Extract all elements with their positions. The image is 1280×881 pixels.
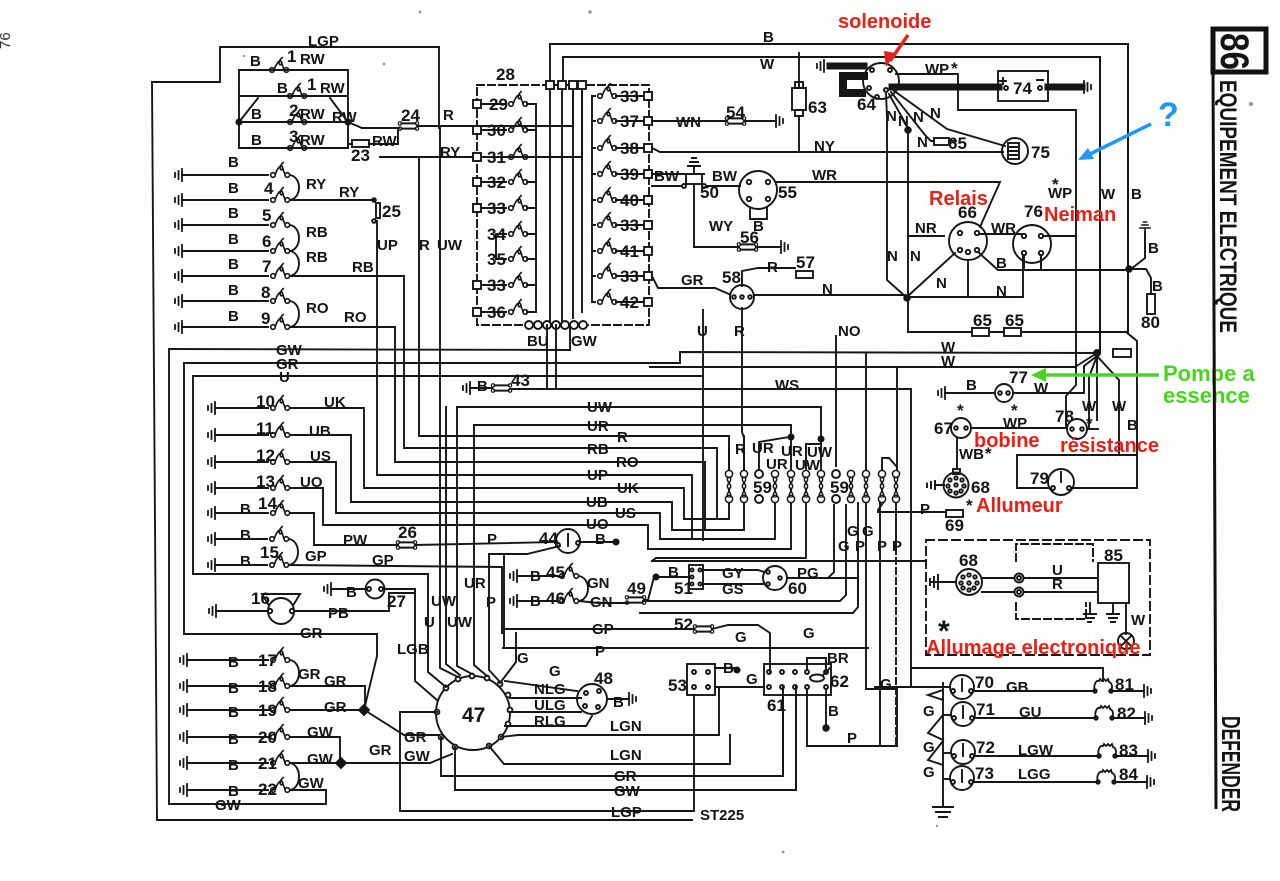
svg-text:1: 1: [307, 75, 316, 94]
svg-text:61: 61: [767, 696, 786, 715]
svg-text:B: B: [530, 593, 541, 610]
wire UW pair vertical: [446, 407, 460, 675]
svg-text:GW: GW: [307, 751, 334, 768]
wire B top: [550, 44, 1128, 332]
svg-text:29: 29: [489, 95, 508, 114]
svg-text:UP: UP: [377, 237, 398, 254]
svg-text:RY: RY: [306, 176, 326, 193]
svg-text:77: 77: [1009, 368, 1028, 387]
switch 3: [288, 136, 307, 151]
switch 4a: [271, 163, 290, 178]
wire N fan 3: [891, 92, 934, 141]
ground 77: [938, 387, 945, 399]
svg-text:NO: NO: [838, 323, 861, 340]
svg-text:B: B: [763, 29, 774, 46]
svg-text:G: G: [549, 663, 561, 680]
solenoid 64: [863, 63, 899, 99]
svg-text:LGN: LGN: [610, 718, 642, 735]
svg-text:RW: RW: [300, 51, 326, 68]
svg-text:RW: RW: [372, 133, 398, 150]
svg-text:47: 47: [462, 704, 485, 727]
svg-text:UR: UR: [464, 575, 486, 592]
svg-text:B: B: [595, 531, 606, 548]
svg-text:72: 72: [976, 738, 995, 757]
wire GS 51-60: [703, 583, 763, 585]
svg-text:B: B: [1148, 240, 1159, 257]
ground 84: [1147, 776, 1154, 788]
node UW feed: [818, 436, 823, 441]
distributor 68: [944, 469, 969, 498]
switch 33a: [473, 196, 536, 212]
svg-text:UK: UK: [324, 394, 346, 411]
bus vertical R in 28: [572, 86, 574, 318]
svg-text:GR: GR: [369, 742, 392, 759]
wire P 44 down: [489, 546, 560, 682]
svg-text:9: 9: [261, 309, 270, 328]
svg-text:12: 12: [256, 446, 275, 465]
svg-text:RB: RB: [306, 249, 328, 266]
svg-text:22: 22: [258, 780, 277, 799]
svg-text:N: N: [936, 275, 947, 292]
wire RY from 4: [290, 199, 374, 201]
svg-text:UR: UR: [752, 440, 774, 457]
connector 25: [376, 203, 380, 218]
wire LGP bottom: [400, 712, 693, 811]
ground 15a: [208, 533, 215, 545]
node W fan junction: [1094, 350, 1100, 356]
battery 74: [998, 71, 1048, 101]
ground 56: [781, 241, 788, 253]
ground 20: [180, 731, 187, 743]
svg-text:GW: GW: [404, 748, 431, 765]
wire W vertical right: [1099, 57, 1101, 352]
wire N fan 2: [889, 94, 908, 128]
wire LGN2 from 47: [489, 735, 730, 764]
svg-text:B: B: [723, 660, 734, 677]
wire B 21: [187, 762, 268, 764]
svg-text:GP: GP: [592, 621, 614, 638]
switch 4b: [271, 188, 290, 203]
wire B 45: [517, 575, 557, 577]
wire bracket RB 6-7: [290, 251, 299, 276]
bus vertical W in 28: [561, 86, 563, 325]
battery cable to 74: [892, 84, 999, 91]
svg-text:53: 53: [668, 676, 687, 695]
wire GN from 46: [579, 601, 627, 603]
wire 56 ground: [756, 246, 781, 248]
wire RO from 9: [290, 327, 395, 462]
svg-text:P: P: [892, 538, 902, 555]
ground 27: [324, 583, 331, 595]
svg-text:G: G: [746, 671, 758, 688]
wire B from 44: [580, 541, 614, 543]
wire G feed lamps vertical: [875, 668, 950, 687]
svg-text:GB: GB: [1006, 679, 1029, 696]
svg-text:W: W: [1131, 612, 1146, 629]
wire N from 66 bottom: [967, 261, 969, 297]
svg-text:71: 71: [976, 700, 995, 719]
svg-text:70: 70: [975, 673, 994, 692]
wire UP end: [377, 475, 692, 539]
scan speckles: [419, 11, 422, 14]
ground 18: [180, 680, 187, 692]
svg-text:83: 83: [1119, 741, 1138, 760]
svg-text:36: 36: [487, 303, 506, 322]
connector 59 plain column: [755, 470, 763, 503]
svg-text:14: 14: [258, 494, 277, 513]
svg-text:N: N: [898, 113, 909, 130]
wire bracket GR 17-18: [290, 660, 299, 686]
wire B 46: [517, 600, 557, 602]
svg-text:N: N: [910, 248, 921, 265]
wire NLG 47-48: [510, 697, 581, 699]
wire GR to 47: [366, 711, 440, 735]
svg-text:solenoide: solenoide: [838, 11, 931, 33]
svg-text:LGW: LGW: [1018, 742, 1054, 759]
wire 76 right: [1043, 235, 1076, 237]
svg-text:RO: RO: [306, 300, 329, 317]
svg-text:UW: UW: [437, 237, 463, 254]
svg-text:B: B: [228, 654, 239, 671]
inner dashed box top: [1016, 544, 1093, 561]
svg-text:33: 33: [487, 199, 506, 218]
svg-text:21: 21: [258, 754, 277, 773]
svg-text:GN: GN: [590, 594, 613, 611]
wire UR1: [474, 425, 791, 437]
wire NR to 66: [908, 235, 944, 237]
switch 37: [592, 109, 652, 125]
node N join: [905, 127, 911, 133]
wire B 4b: [182, 199, 268, 201]
svg-text:U: U: [279, 369, 290, 386]
wire GR drop from 61: [782, 687, 784, 776]
wire P1 from 59: [880, 503, 896, 746]
svg-text:4: 4: [264, 179, 274, 198]
ground 14: [208, 507, 215, 519]
svg-text:G: G: [880, 676, 892, 693]
wire B vertical right: [1127, 44, 1129, 332]
svg-text:58: 58: [722, 268, 741, 287]
wire 83 ground: [1116, 755, 1148, 757]
wire B 10: [215, 407, 268, 409]
svg-text:BR: BR: [827, 650, 849, 667]
wire U 68b to 85: [982, 577, 1098, 579]
wire GW from 21: [290, 762, 339, 764]
ground 83: [1148, 750, 1155, 762]
svg-text:W: W: [760, 56, 775, 73]
wire U long: [193, 375, 703, 377]
svg-text:GR: GR: [298, 666, 321, 683]
svg-text:WY: WY: [709, 218, 733, 235]
resistor 80: [1147, 294, 1155, 314]
svg-text:64: 64: [857, 95, 876, 114]
ignition lock 75: [1002, 138, 1028, 164]
wire NY from 38: [652, 148, 1003, 152]
wire U wrap left: [193, 376, 428, 574]
inner dashed box bottom: [1016, 603, 1086, 619]
svg-text:67: 67: [934, 419, 953, 438]
battery cable thick L: [843, 76, 868, 93]
svg-text:R: R: [1052, 576, 1063, 593]
wire WR from 55: [776, 182, 1000, 227]
svg-text:52: 52: [674, 615, 693, 634]
svg-text:U: U: [424, 614, 435, 631]
svg-text:17: 17: [258, 651, 277, 670]
coil 67 bobine: [951, 418, 971, 438]
wire WY from 50: [694, 186, 739, 247]
svg-text:B: B: [251, 106, 262, 123]
switch 38: [592, 136, 652, 152]
wire B 14: [215, 512, 268, 514]
wire 23 stub: [348, 128, 398, 144]
wire B 7: [182, 275, 268, 277]
svg-text:74: 74: [1013, 79, 1032, 98]
switch 8: [271, 289, 290, 304]
switch 5: [271, 213, 290, 228]
switch 27: [366, 580, 385, 599]
svg-text:bobine: bobine: [974, 430, 1040, 452]
svg-text:3: 3: [289, 127, 298, 146]
svg-text:*: *: [951, 59, 958, 78]
ground 15b: [208, 559, 215, 571]
wire UW into 47: [440, 128, 458, 677]
wire LGP right drop: [438, 47, 440, 128]
wire bracket GN 45-46: [579, 576, 588, 601]
svg-text:37: 37: [620, 112, 639, 131]
wire RLG 47-48: [505, 716, 592, 726]
svg-text:32: 32: [487, 173, 506, 192]
svg-text:86: 86: [1212, 33, 1256, 70]
svg-text:Allumage electronique: Allumage electronique: [926, 637, 1141, 659]
svg-text:51: 51: [674, 579, 693, 598]
svg-text:B: B: [240, 501, 251, 518]
ground 8: [175, 295, 182, 307]
switch 33b: [473, 273, 536, 289]
switch 33e: [592, 264, 652, 280]
lamp 72: [951, 740, 975, 764]
wire B 77: [945, 392, 995, 394]
wire G mid line: [640, 503, 858, 613]
switch 7: [271, 264, 290, 279]
node B 53: [734, 667, 739, 672]
dip switch 55: [739, 171, 777, 219]
wire B from 76: [1040, 255, 1042, 270]
wire 48 ground: [607, 698, 629, 700]
wire 67 down to 68: [956, 438, 958, 467]
svg-text:WP: WP: [1048, 185, 1072, 202]
svg-text:62: 62: [830, 672, 849, 691]
ground 85a: [1084, 603, 1096, 622]
svg-text:B: B: [477, 378, 488, 395]
wire B 15b: [215, 564, 267, 566]
wire US: [290, 462, 660, 539]
svg-text:GN: GN: [587, 575, 610, 592]
svg-text:ULG: ULG: [534, 697, 566, 714]
svg-text:73: 73: [975, 764, 994, 783]
wire UR into 47: [457, 407, 472, 674]
wire bracket RO 8-9: [290, 301, 299, 327]
connector 65a: [934, 138, 949, 145]
relay 66: [949, 222, 987, 260]
connector fan right: [1113, 349, 1131, 357]
wire GP from 15: [289, 565, 502, 633]
ground 9: [175, 321, 182, 333]
wire bracket GW 21-22: [290, 763, 299, 790]
svg-text:76: 76: [1024, 202, 1043, 221]
wire BW 50 to 55: [652, 185, 740, 187]
switch 18: [271, 674, 290, 689]
svg-text:ST225: ST225: [700, 807, 744, 824]
svg-text:LGG: LGG: [1018, 766, 1051, 783]
wire R 68b to 85: [982, 591, 1098, 593]
svg-text:B: B: [530, 568, 541, 585]
wire y561 line: [652, 560, 926, 562]
svg-text:35: 35: [487, 250, 506, 269]
svg-text:11: 11: [256, 419, 274, 438]
svg-text:59: 59: [830, 478, 849, 497]
switch 45: [560, 564, 579, 579]
wire GR from 33e to 58: [652, 276, 729, 294]
svg-text:RB: RB: [306, 224, 328, 241]
wire G 71: [943, 714, 951, 716]
wire G zigzag bus: [928, 683, 943, 807]
wire W from 77: [1013, 356, 1097, 393]
svg-text:UO: UO: [300, 474, 323, 491]
svg-text:UW: UW: [587, 399, 613, 416]
wire PW to 26: [290, 513, 398, 545]
svg-text:48: 48: [594, 669, 613, 688]
neiman 76: [1013, 225, 1051, 263]
svg-text:30: 30: [487, 121, 506, 140]
connector block 28 dashed box: [477, 85, 649, 325]
switch 41: [592, 239, 652, 255]
wire G up from 47: [500, 633, 516, 683]
wire 78 loop to 79: [1017, 421, 1137, 488]
wire B 19: [187, 709, 268, 711]
svg-text:50: 50: [700, 183, 719, 202]
switch 11: [271, 423, 290, 438]
ground 48: [629, 693, 636, 705]
switch 1b: [288, 84, 307, 99]
wire B 4a: [182, 174, 268, 176]
wire GP to 52: [502, 628, 694, 630]
svg-text:19: 19: [258, 701, 277, 720]
wire P under 61: [807, 689, 897, 746]
wire GN right to 59: [643, 505, 846, 601]
bus vertical B in 28: [549, 86, 551, 325]
lamp 71: [951, 702, 975, 726]
wire B from 66: [978, 252, 1128, 270]
svg-text:EQUIPEMENT ELECTRIQUE: EQUIPEMENT ELECTRIQUE: [1214, 80, 1241, 333]
wire B 27: [331, 588, 365, 590]
connector 57: [796, 271, 813, 278]
connector 49: [625, 596, 645, 605]
ground lamp bus: [933, 807, 953, 817]
svg-text:*: *: [1086, 414, 1093, 433]
wire UW2 into 47: [474, 425, 487, 676]
switch 13: [271, 476, 290, 491]
svg-text:UR: UR: [766, 456, 788, 473]
ground 16: [209, 605, 216, 617]
ground battery left: [817, 60, 824, 72]
right column bus: [591, 96, 593, 302]
wire B 12: [215, 461, 268, 463]
svg-text:81: 81: [1115, 675, 1134, 694]
ground 6: [175, 245, 182, 257]
svg-text:24: 24: [401, 106, 420, 125]
wire B 6: [182, 250, 268, 252]
svg-text:20: 20: [258, 728, 277, 747]
svg-text:13: 13: [256, 472, 275, 491]
wire UK: [290, 408, 684, 519]
svg-text:résistance: résistance: [1060, 435, 1159, 457]
wire 53 down ST225: [693, 695, 695, 811]
lamp 73: [950, 766, 974, 790]
switch 10: [271, 396, 290, 411]
svg-text:GW: GW: [614, 783, 641, 800]
battery cable right: [1048, 84, 1082, 91]
svg-text:UR: UR: [587, 418, 609, 435]
wire BU drop 2: [555, 325, 557, 389]
wire bracket RB 5-6: [290, 225, 299, 251]
left column bus: [535, 104, 537, 312]
wire B to 80: [1129, 269, 1151, 294]
connector 59 left group: [725, 470, 824, 502]
svg-text:63: 63: [808, 98, 827, 117]
horn 16: [262, 594, 300, 624]
svg-text:PW: PW: [343, 532, 368, 549]
connector 65b: [972, 328, 989, 336]
wire LGB: [415, 590, 437, 700]
wire W fan lines: [650, 353, 1119, 421]
svg-text:25: 25: [382, 202, 401, 221]
connector 61 62 block: [764, 664, 831, 695]
svg-text:BW: BW: [654, 168, 680, 185]
svg-text:B: B: [228, 308, 239, 325]
svg-text:2: 2: [289, 101, 298, 120]
wire P G long line: [503, 647, 868, 649]
svg-text:N: N: [913, 109, 924, 126]
ground 4b: [175, 194, 182, 206]
switch 29: [473, 92, 536, 108]
node B join right: [1126, 266, 1132, 272]
node right box1-3: [345, 119, 350, 124]
svg-text:UW: UW: [447, 614, 473, 631]
switch 46: [560, 589, 579, 604]
connector 43: [491, 384, 511, 393]
svg-text:33: 33: [620, 267, 639, 286]
wire P 26 to 44: [415, 542, 557, 545]
connector 23: [352, 140, 369, 147]
svg-text:P: P: [486, 594, 496, 611]
ground 21: [180, 757, 187, 769]
svg-text:US: US: [310, 448, 331, 465]
svg-text:P: P: [920, 501, 930, 518]
wire B 11: [215, 434, 268, 436]
wire N diag relay: [908, 253, 955, 296]
wire GW long: [169, 349, 570, 350]
connector 59 plain column 2: [832, 470, 840, 503]
svg-text:GP: GP: [372, 552, 394, 569]
svg-text:8: 8: [261, 283, 270, 302]
wire GR long: [184, 352, 1097, 363]
svg-text:P: P: [877, 538, 887, 555]
svg-text:68: 68: [959, 551, 978, 570]
ground 10: [208, 402, 215, 414]
svg-text:33: 33: [620, 216, 639, 235]
svg-text:GR: GR: [681, 272, 704, 289]
wire UO: [290, 488, 648, 549]
